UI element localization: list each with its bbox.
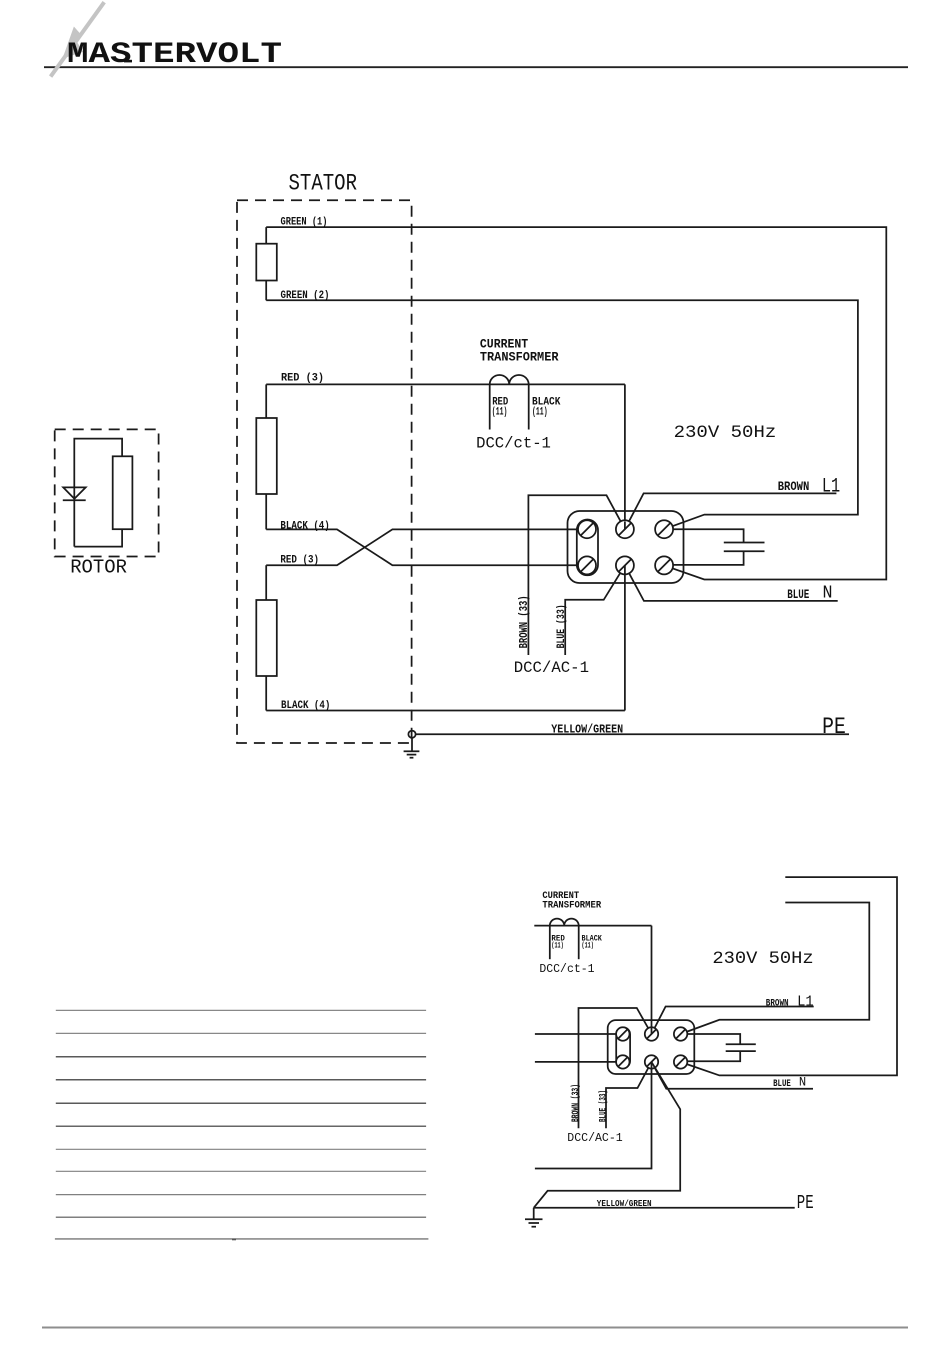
D2 wire to mains via top-right terminal (681, 903, 870, 1035)
wire BROWN L1 output (625, 493, 837, 529)
D2 wire YELLOW/GREEN PE (534, 1198, 795, 1209)
screw terminal 1 (top-left) (578, 520, 596, 538)
D2 label BLUE N (773, 1076, 806, 1090)
svg-text:STATOR: STATOR (289, 170, 358, 196)
D2 screw terminal 4 (bottom-left) (616, 1055, 629, 1068)
D2 ground wire from bottom-middle terminal (534, 1062, 681, 1208)
svg-text:GREEN (1): GREEN (1) (281, 217, 328, 229)
svg-text:MASTERVOLT: MASTERVOLT (67, 38, 282, 72)
svg-text:BLACK (4): BLACK (4) (280, 521, 329, 533)
svg-text:DCC/ct-1: DCC/ct-1 (539, 962, 594, 976)
stator enclosure (dashed) (237, 200, 412, 743)
rotor winding (74, 439, 132, 547)
svg-text:230V 50Hz: 230V 50Hz (712, 949, 813, 969)
D2 terminal link capsule (616, 1027, 630, 1068)
capacitor C1 across L1/N terminals (664, 529, 764, 565)
D2 ground symbol (525, 1208, 543, 1227)
D2 left wire to top-left terminal (535, 1033, 623, 1035)
screw terminal 6 (bottom-right) (655, 556, 673, 574)
D2 wire RED down to top-middle terminal (651, 926, 653, 1034)
D2 wire BROWN (33) to DCC/AC-1 (579, 1008, 652, 1128)
wire YELLOW/GREEN PE (416, 723, 849, 737)
svg-text:BLUE: BLUE (773, 1079, 791, 1090)
stator winding L1b (256, 384, 277, 529)
wire BLACK into bottom-middle screw (624, 565, 626, 710)
svg-text:PE: PE (797, 1192, 814, 1214)
pin label RED (11) (492, 397, 509, 419)
wire BROWN (33) to DCC/AC-1 (528, 495, 625, 655)
svg-text:N: N (799, 1076, 806, 1090)
wire RED (3) lower, crossing to upper-left terminal (266, 529, 587, 566)
svg-text:ROTOR: ROTOR (70, 557, 127, 579)
D2 wire BLACK lower to bottom-middle terminal (535, 1062, 652, 1169)
svg-text:230V 50Hz: 230V 50Hz (674, 423, 777, 443)
svg-text:PE: PE (822, 714, 846, 740)
current transformer DCC/ct-1 (490, 375, 529, 430)
D2 label BROWN L1 (766, 994, 814, 1011)
label BLUE N (787, 584, 832, 604)
stator winding L1a (256, 227, 277, 300)
svg-text:L1: L1 (797, 994, 814, 1011)
svg-text:GREEN (2): GREEN (2) (281, 290, 330, 302)
svg-text:L1: L1 (822, 476, 840, 499)
D2 wire into top-middle screw (651, 1028, 653, 1035)
D2 label CURRENT TRANSFORMER (542, 890, 601, 911)
D2 screw terminal 2 (top-middle) (645, 1027, 658, 1040)
screw terminal 4 (bottom-left) (578, 556, 596, 574)
svg-text:(11): (11) (551, 942, 563, 951)
D2 wire into bottom-middle screw (651, 1062, 653, 1069)
pin label BLACK (11) (532, 397, 561, 419)
D2 screw terminal 3 (top-right) (674, 1027, 687, 1040)
Mastervolt logo text (67, 38, 282, 72)
wire RED to top-middle terminal (from CT) (624, 384, 626, 521)
svg-text:BLUE: BLUE (787, 588, 809, 602)
svg-text:(11): (11) (582, 942, 594, 951)
svg-text:BLUE (33): BLUE (33) (598, 1090, 610, 1122)
notes ruled lines (55, 1010, 429, 1239)
stator winding L1c (256, 565, 277, 710)
ground symbol (404, 738, 420, 758)
D2 pin label BLACK (11) (582, 934, 603, 950)
wire BLUE (33) to DCC/AC-1 (565, 565, 625, 655)
terminal block TB1 (568, 511, 684, 583)
svg-text:(11): (11) (492, 406, 508, 418)
wire RED into top-middle screw (624, 522, 626, 530)
label BROWN L1 (778, 476, 841, 499)
wire GREEN (1) to bottom-right terminal (266, 217, 886, 580)
svg-text:TRANSFORMER: TRANSFORMER (480, 350, 559, 364)
terminal link capsule (left pair) (577, 520, 598, 576)
D2 wire to mains via bottom-right terminal (681, 877, 897, 1075)
svg-text:YELLOW/GREEN: YELLOW/GREEN (597, 1198, 652, 1209)
header rule (44, 66, 908, 68)
wire RED (3) through current transformer (266, 373, 625, 385)
D2 wire BROWN L1 output (652, 1007, 814, 1035)
D2 terminal block TB1 (608, 1020, 695, 1074)
D2 capacitor C1 (681, 1034, 756, 1061)
svg-text:BROWN (33): BROWN (33) (517, 595, 531, 648)
D2 wire BLUE (33) to DCC/AC-1 (606, 1062, 652, 1128)
wire BLACK (4) lower to bottom-middle terminal (266, 700, 625, 712)
svg-text:BROWN: BROWN (778, 480, 810, 494)
D2 screw terminal 6 (bottom-right) (674, 1055, 687, 1068)
D2 pin label RED (11) (551, 934, 565, 950)
svg-text:TRANSFORMER: TRANSFORMER (542, 900, 601, 911)
frame ground node (408, 731, 415, 738)
screw terminal 2 (top-middle) (616, 520, 634, 538)
D2 screw terminal 5 (bottom-middle) (645, 1055, 658, 1068)
wire GREEN (2) to top-right terminal (266, 290, 858, 529)
svg-text:RED (3): RED (3) (280, 555, 319, 567)
svg-text:N: N (823, 584, 833, 604)
svg-text:DCC/AC-1: DCC/AC-1 (514, 659, 589, 677)
D2 wire RED through current transformer (534, 925, 651, 927)
footer rule (42, 1327, 908, 1329)
wire BLUE N output (625, 565, 838, 601)
rotor enclosure (dashed) (55, 429, 159, 556)
D2 left wire to bottom-left terminal (535, 1061, 623, 1063)
svg-text:BROWN (33): BROWN (33) (570, 1084, 582, 1122)
screw terminal 5 (bottom-middle) (616, 556, 634, 574)
Mastervolt logo lightning bolt (51, 2, 105, 76)
D2 current transformer DCC/ct-1 (550, 919, 579, 960)
svg-text:DCC/ct-1: DCC/ct-1 (476, 434, 551, 452)
D2 screw terminal 1 (top-left) (616, 1027, 629, 1040)
label CURRENT TRANSFORMER (480, 338, 559, 365)
svg-text:RED (3): RED (3) (281, 373, 324, 385)
svg-text:DCC/AC-1: DCC/AC-1 (567, 1131, 622, 1145)
rotor diode (63, 487, 86, 500)
svg-text:BROWN: BROWN (766, 997, 789, 1009)
svg-text:BLUE (33): BLUE (33) (556, 604, 568, 648)
svg-text:YELLOW/GREEN: YELLOW/GREEN (551, 723, 623, 737)
D2 wire BLUE N output (652, 1062, 814, 1089)
screw terminal 3 (top-right) (655, 520, 673, 538)
wire BLACK (4) crossing to lower-left terminal (266, 521, 587, 566)
svg-text:(11): (11) (532, 406, 548, 418)
svg-text:BLACK (4): BLACK (4) (281, 700, 330, 712)
